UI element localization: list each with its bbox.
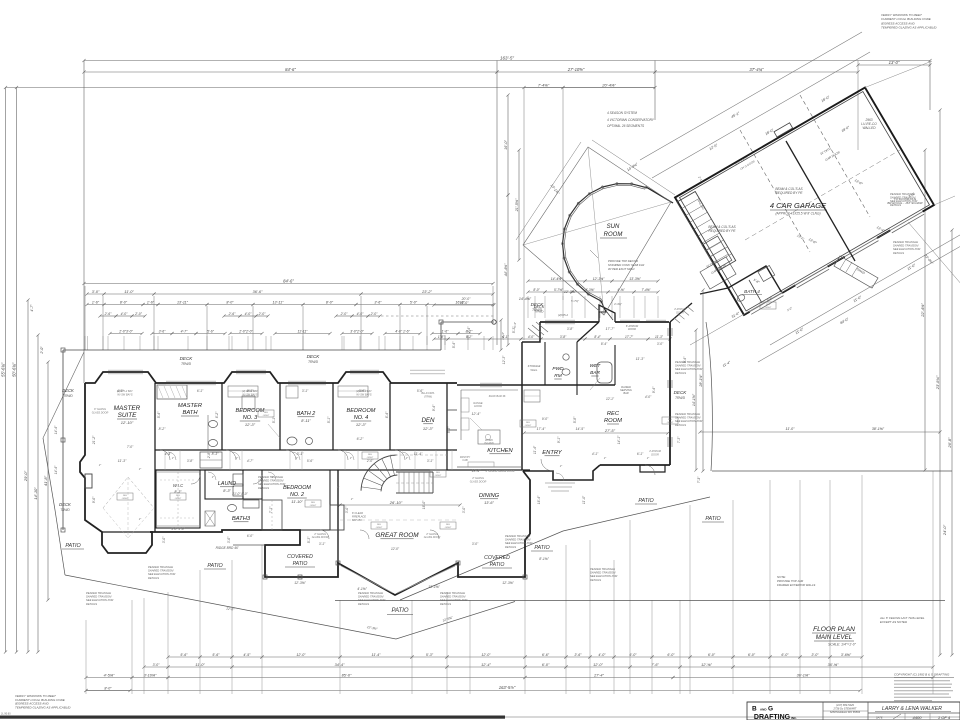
svg-text:3'-6": 3'-6" [159,329,167,333]
svg-text:DECK: DECK [307,354,321,359]
door arcs [160,450,170,460]
svg-text:5'-3": 5'-3" [447,426,451,433]
svg-text:LIGHT: LIGHT [525,425,532,427]
svg-text:8'-4": 8'-4" [594,335,601,339]
patio long horizontal y600 [335,600,945,602]
svg-text:PATIO: PATIO [638,498,654,504]
svg-text:28'-1⅝": 28'-1⅝" [699,374,703,388]
svg-text:14'-4⅝": 14'-4⅝" [519,297,532,301]
svg-text:PEAKED TRIANGLE: PEAKED TRIANGLE [893,240,918,244]
svg-text:3°: 3° [647,456,649,460]
svg-text:23'-8¾": 23'-8¾" [935,375,940,390]
svg-text:TRWD: TRWD [675,396,686,400]
bedroom3 furr box [242,396,255,409]
curved stair fan [381,475,397,491]
right dim columns [924,150,926,470]
svg-text:PATIO: PATIO [705,516,721,522]
svg-text:TRWD: TRWD [532,308,543,312]
svg-text:G: G [768,706,773,713]
dimension 84-6 top [84,71,497,73]
bedroom4 closet [338,386,368,397]
svg-text:SHARED TRANSOM: SHARED TRANSOM [890,196,916,200]
svg-text:14'-1⅝": 14'-1⅝" [692,393,696,406]
pwd rm / wet bar walls [522,384,615,386]
svg-text:SHARED TRANSOM: SHARED TRANSOM [440,595,466,599]
svg-text:3°: 3° [272,475,274,479]
window [667,328,669,336]
svg-text:TRWD: TRWD [308,360,319,364]
sunroom connector to garage [646,187,673,203]
svg-text:5'-7⅝": 5'-7⅝" [554,288,564,292]
svg-text:3'-10⅝": 3'-10⅝" [144,673,157,677]
house outer wall top with bays [85,372,457,383]
svg-text:14'-4": 14'-4" [54,425,58,434]
svg-text:WET: WET [590,363,602,369]
mud hall to garage [670,303,692,322]
svg-text:W/ PER EXHT SPAN: W/ PER EXHT SPAN [608,267,635,271]
master bath fixtures [157,385,187,399]
svg-text:9'-6": 9'-6" [92,496,96,503]
pwd fixtures [562,369,570,375]
bottom sheet edge bar [0,716,505,719]
garage dim lines NW side [640,32,862,160]
svg-text:EXCEPT AS NOTED: EXCEPT AS NOTED [880,620,907,624]
svg-text:NO. 2: NO. 2 [290,492,304,498]
svg-text:BATH 2: BATH 2 [297,411,315,417]
svg-text:13'-0": 13'-0" [889,60,900,65]
dim 38-1 [745,447,945,449]
property line left diagonal [43,438,65,575]
svg-text:PATIO: PATIO [65,543,81,549]
svg-text:27'-4": 27'-4" [593,673,604,677]
svg-text:12'-3": 12'-3" [423,426,434,431]
svg-text:21'-5⅝": 21'-5⅝" [515,198,519,212]
great room dashed ridge [340,519,458,521]
svg-text:13'-6": 13'-6" [484,501,494,505]
window ticks top wall [108,369,143,371]
svg-text:4400: 4400 [913,715,923,720]
svg-text:6'-0": 6'-0" [781,653,789,657]
svg-text:B: B [752,706,757,713]
svg-text:GLASS DOOR: GLASS DOOR [92,411,109,414]
svg-text:PEAKED TRIANGLE: PEAKED TRIANGLE [890,192,915,196]
svg-text:4'-0": 4'-0" [598,653,606,657]
great room fireplace [330,505,344,530]
garage man door bump [774,123,793,137]
dim drop lines long [84,286,86,350]
svg-text:LIGHT: LIGHT [263,415,270,417]
svg-text:LARRY & LENA WALKER: LARRY & LENA WALKER [882,706,942,712]
svg-text:3'-0": 3'-0" [162,536,166,543]
svg-text:3'-0": 3'-0" [462,506,466,513]
misc leader arrows [268,424,280,438]
svg-text:3'-1": 3'-1" [297,452,305,456]
svg-text:4'-0": 4'-0" [528,335,535,339]
svg-text:3'-8": 3'-8" [187,459,194,463]
svg-text:LIGHT: LIGHT [175,498,182,500]
svg-text:5'-6": 5'-6" [307,459,314,463]
svg-text:HOOD: HOOD [474,404,482,408]
svg-text:8'-3": 8'-3" [174,490,182,494]
svg-text:SHARED TRANSOM: SHARED TRANSOM [893,244,919,248]
svg-text:7'-0": 7'-0" [127,445,134,449]
svg-text:SEE ELEVATION FOR: SEE ELEVATION FOR [86,598,113,602]
svg-text:SHARED TRANSOM: SHARED TRANSOM [675,416,701,420]
svg-text:TEMPERED GLAZING AS APPLICABLE: TEMPERED GLAZING AS APPLICABLE) [881,26,936,30]
svg-text:MASTER: MASTER [114,405,141,412]
copyright note [894,677,954,679]
svg-text:4'-1⅝": 4'-1⅝" [357,587,367,591]
svg-text:SEE ELEVATION FOR: SEE ELEVATION FOR [358,598,385,602]
svg-text:COPYRIGHT (C) 1992 B & G DRAFT: COPYRIGHT (C) 1992 B & G DRAFTING [894,673,950,677]
svg-text:SHARED TRANSOM: SHARED TRANSOM [505,538,531,542]
master fireplace [85,474,92,488]
svg-text:11'-0": 11'-0" [786,427,796,431]
house left outer wall [80,383,152,553]
svg-text:4 SEASON SYSTEM: 4 SEASON SYSTEM [607,111,637,115]
garage diag dims right [908,222,960,292]
svg-text:MASTER: MASTER [178,403,203,409]
svg-text:GLASS DOOR: GLASS DOOR [470,480,487,483]
svg-text:FRAMED EXTERIOR WALLS: FRAMED EXTERIOR WALLS [777,583,815,587]
dim row 3 [87,304,104,306]
svg-text:DECK: DECK [674,390,688,395]
svg-text:3'-0": 3'-0" [153,663,161,667]
svg-text:MAIN LEVEL: MAIN LEVEL [816,634,853,641]
sun room center lines [588,147,604,315]
master suite east wall [154,383,156,532]
diamond edge dims [592,140,675,195]
svg-text:12'-0": 12'-0" [391,547,400,551]
kitchen east wall [521,342,523,470]
bath3 fixtures [228,505,237,512]
svg-text:4 CAR GARAGE: 4 CAR GARAGE [770,201,827,210]
svg-text:14'-10": 14'-10" [33,487,38,500]
laundry walls [205,470,243,499]
svg-text:27'-5": 27'-5" [604,428,616,433]
svg-text:W/ SM BAYS: W/ SM BAYS [117,392,132,396]
svg-text:2'-0": 2'-0" [370,312,379,316]
svg-text:PEAKED TRIANGLE: PEAKED TRIANGLE [675,412,700,416]
svg-text:12'-3⅝": 12'-3⅝" [294,581,306,585]
svg-text:SEE ELEVATION FOR: SEE ELEVATION FOR [505,541,532,545]
dim rows under sunroom [528,280,585,282]
svg-text:36'-6": 36'-6" [253,290,263,294]
svg-text:5'-7⅝": 5'-7⅝" [571,299,580,303]
svg-text:13'-11": 13'-11" [273,300,285,304]
svg-text:DETAILS: DETAILS [440,602,451,606]
svg-text:14'-1": 14'-1" [617,435,621,444]
svg-text:12'-⅝": 12'-⅝" [701,663,712,667]
svg-text:LIGHT: LIGHT [667,422,674,424]
svg-text:6'-0": 6'-0" [667,653,675,657]
svg-text:7'-1": 7'-1" [269,506,273,513]
svg-text:11'-0": 11'-0" [582,495,586,504]
svg-text:GREAT ROOM: GREAT ROOM [375,532,419,539]
svg-text:16'-0": 16'-0" [460,301,469,305]
svg-text:3'-1": 3'-1" [319,542,326,546]
svg-text:14'-5": 14'-5" [576,427,585,431]
svg-text:3°: 3° [212,475,214,479]
svg-text:BATH3: BATH3 [232,516,251,522]
svg-text:PEAKED TRIANGLE: PEAKED TRIANGLE [590,567,615,571]
laundry washer dryer [233,474,243,484]
svg-text:6'-4": 6'-4" [385,411,389,418]
trwd walk hatches [674,318,680,323]
svg-text:PEAKED TRIANGLE: PEAKED TRIANGLE [440,591,465,595]
svg-text:4'-3⅝": 4'-3⅝" [614,302,623,306]
svg-text:8'-0": 8'-0" [326,300,334,304]
garage trwd steps [834,256,878,288]
bottom drop lines [85,620,87,694]
svg-text:REQUIRED BY PE: REQUIRED BY PE [775,191,803,195]
svg-text:COVERED: COVERED [484,555,510,561]
svg-text:5'-0" 5'-0": 5'-0" 5'-0" [171,527,185,531]
svg-text:12'-3": 12'-3" [245,422,256,427]
bottom overall dim [86,690,130,692]
svg-text:DETAILS: DETAILS [148,576,159,580]
svg-text:BAR: BAR [590,370,600,376]
svg-text:3'-6": 3'-6" [374,300,382,304]
svg-text:DETAILS: DETAILS [890,203,901,207]
svg-text:4'-1": 4'-1" [592,452,599,456]
svg-text:PEAKED TRIANGLE: PEAKED TRIANGLE [675,360,700,364]
rec room east wall [669,322,671,465]
svg-text:36'-⅝": 36'-⅝" [828,663,839,667]
svg-text:6'-0": 6'-0" [708,653,716,657]
kitchen counters [460,390,462,440]
svg-text:8'-11": 8'-11" [301,419,311,423]
svg-text:3'-6": 3'-6" [227,536,231,543]
svg-text:16'-4": 16'-4" [537,495,541,504]
dim drop lines [84,336,86,350]
svg-text:3'-6⅝": 3'-6⅝" [841,653,852,657]
svg-text:14'-4⅝": 14'-4⅝" [551,277,563,281]
bedroom3 closet doors [228,386,258,397]
bath3 walls [222,499,262,530]
svg-text:DETAILS: DETAILS [358,602,369,606]
front door recess [599,305,615,322]
svg-text:3'-0": 3'-0" [472,542,479,546]
svg-text:2'-0": 2'-0" [258,312,267,316]
window [667,380,669,388]
svg-text:38'-1⅝": 38'-1⅝" [872,427,885,431]
bedroom4 / den wall [389,383,391,450]
svg-text:7'-3": 7'-3" [697,476,701,483]
svg-text:1'-6": 1'-6" [147,300,155,304]
svg-text:4" GLDNG GLASS DOOR: 4" GLDNG GLASS DOOR [485,470,514,473]
svg-text:2'-4": 2'-4" [467,326,471,334]
svg-text:12'-0": 12'-0" [481,653,491,657]
hall tiny arcs [168,452,176,460]
prow windows [341,566,393,593]
kitchen south counter [457,466,522,468]
stair rail dashed [396,482,433,484]
svg-text:LIGHT: LIGHT [376,527,383,529]
svg-text:163'-5⅞": 163'-5⅞" [499,685,516,690]
svg-text:11'-3": 11'-3" [118,459,127,463]
svg-text:8'-3": 8'-3" [212,452,220,456]
svg-text:DECK: DECK [62,388,74,393]
sunroom connector to entry [599,301,606,312]
svg-text:6'-1": 6'-1" [637,452,644,456]
den bay dashed [390,454,447,456]
svg-text:SNAK BAR 36: SNAK BAR 36 [489,394,506,398]
svg-text:8'-0": 8'-0" [533,288,540,292]
corridor wall y470 [155,469,530,471]
entry closet [524,390,540,402]
svg-text:4'-5⅝": 4'-5⅝" [104,673,115,677]
svg-text:36'-1⅝": 36'-1⅝" [797,673,810,677]
svg-text:3'-0": 3'-0" [345,506,349,513]
svg-text:3'-8": 3'-8" [560,335,567,339]
master bath / bedroom3 wall [221,383,223,450]
svg-text:JL.90.60: JL.90.60 [1,713,11,716]
left sheet verticals [5,88,7,653]
svg-text:ISLAND: ISLAND [484,441,493,445]
svg-text:LIGHT: LIGHT [445,527,452,529]
svg-text:REQUIRED BY PE: REQUIRED BY PE [708,229,736,233]
svg-text:ENTRY: ENTRY [542,450,563,456]
svg-text:NO. 3: NO. 3 [243,415,258,421]
deck west edge [62,350,64,530]
corridor wall y450 [155,449,457,451]
svg-text:DOOR: DOOR [651,453,659,456]
svg-text:(417) 883-5429: (417) 883-5429 [836,703,854,707]
stair straight run [396,471,433,473]
garage center long dashed [745,150,900,240]
svg-text:TRWD: TRWD [63,394,73,398]
rec room right dim col [695,330,697,470]
house bottom wall left section [150,530,300,577]
svg-text:11'-4": 11'-4" [533,445,537,454]
svg-text:4'-0": 4'-0" [117,389,124,393]
svg-text:4'-0": 4'-0" [121,312,129,316]
svg-text:SHARED TRANSOM: SHARED TRANSOM [258,479,284,483]
deck steps at kitchen [528,328,540,338]
svg-text:12'-0": 12'-0" [296,653,306,657]
svg-text:TEMPERED GLAZING AS APPLICABLE: TEMPERED GLAZING AS APPLICABLE) [15,705,70,709]
svg-text:DINING: DINING [479,493,500,499]
entry south wall zigzag [523,465,600,480]
svg-text:3°: 3° [172,456,174,460]
svg-text:2'-0": 2'-0" [340,312,349,316]
svg-text:11'-10": 11'-10" [291,500,303,504]
svg-text:DETAILS: DETAILS [86,602,97,606]
svg-text:3°: 3° [604,456,606,460]
svg-text:2'-6": 2'-6" [228,312,237,316]
sun room segmented semicircle [563,184,646,301]
svg-text:(2)W5-2: (2)W5-2 [558,313,569,317]
svg-text:44'-4⅝": 44'-4⅝" [504,263,508,276]
svg-text:6'-0": 6'-0" [542,663,550,667]
svg-text:22'-4⅝": 22'-4⅝" [920,303,925,318]
svg-text:4'-0": 4'-0" [645,395,652,399]
svg-text:PEAKED TRIANGLE: PEAKED TRIANGLE [358,591,383,595]
svg-text:11'-3": 11'-3" [655,335,664,339]
svg-text:4'-7": 4'-7" [247,459,254,463]
svg-text:3°: 3° [351,497,353,501]
svg-text:SCALE: 1/4"=1'-0": SCALE: 1/4"=1'-0" [828,643,856,647]
svg-text:NO. 4: NO. 4 [354,415,369,421]
svg-text:PATIO: PATIO [207,563,223,569]
rec room south wall [600,464,670,466]
bath3 bifold X [205,511,215,526]
svg-text:REC: REC [607,411,620,417]
svg-text:SHARED TRANSOM: SHARED TRANSOM [675,364,701,368]
deck step jog [440,322,442,350]
sun room diamond roof [523,147,671,315]
svg-text:5'-3": 5'-3" [512,326,516,333]
svg-text:5'-8": 5'-8" [573,416,577,423]
svg-text:16'-0": 16'-0" [422,500,426,509]
deck 16-0 dim [434,304,494,306]
svg-text:11'-4": 11'-4" [372,653,382,657]
svg-text:BAR: BAR [623,391,628,395]
svg-text:26'-8": 26'-8" [947,437,952,449]
svg-text:W.I.C: W.I.C [173,483,184,488]
svg-text:DECK: DECK [180,356,194,361]
svg-text:17'-7": 17'-7" [606,327,615,331]
entry north outer wall y322 [540,321,599,323]
garage bay divider dashed 2 [800,95,870,217]
svg-text:PATIO: PATIO [534,545,550,551]
vertical guide x858 x930 [857,61,859,151]
svg-text:6'-0": 6'-0" [247,534,254,538]
svg-text:5'-6": 5'-6" [180,653,188,657]
svg-text:1 OF 4: 1 OF 4 [938,715,951,720]
den closet strip [447,409,457,411]
svg-text:4'-7": 4'-7" [30,304,34,312]
svg-text:3°: 3° [139,467,141,471]
svg-text:RIDGE BRD 46': RIDGE BRD 46' [216,546,239,550]
window [667,437,669,447]
svg-text:17'-7": 17'-7" [625,335,634,339]
den east wall [446,383,448,470]
hall door ticks [164,450,166,470]
svg-text:12'-3": 12'-3" [501,331,505,340]
covered patio door arcs [320,530,329,539]
svg-text:PATIO: PATIO [391,608,408,614]
svg-text:DRAFTING: DRAFTING [754,714,791,720]
svg-text:ROOM: ROOM [604,232,623,238]
svg-text:9'-0": 9'-0" [542,417,549,421]
deck post [492,320,496,324]
svg-text:5'-1": 5'-1" [327,416,331,423]
svg-text:LIGHT: LIGHT [765,307,772,309]
front door leaf [603,307,613,320]
svg-text:PEAKED TRIANGLE: PEAKED TRIANGLE [86,591,111,595]
patio edge diagonal [400,497,710,600]
dining east wall [523,471,530,534]
svg-text:12'-3⅝": 12'-3⅝" [564,290,577,294]
svg-text:12'-3": 12'-3" [502,355,506,364]
svg-text:DATE: DATE [876,717,883,720]
svg-text:163'-5": 163'-5" [500,55,514,60]
master bay bottom chamfers [102,531,152,533]
svg-text:PEAKED TRIANGLE: PEAKED TRIANGLE [148,565,173,569]
great room west wall [337,470,339,563]
svg-text:DEN: DEN [421,417,435,424]
svg-text:W/ SM BAYS: W/ SM BAYS [356,392,371,396]
svg-text:8'-3": 8'-3" [223,489,231,493]
svg-text:SEE ELEVATION FOR: SEE ELEVATION FOR [675,419,702,423]
svg-text:12'-4": 12'-4" [472,412,481,416]
svg-text:7'-4⅝": 7'-4⅝" [641,288,651,292]
svg-text:5'-3": 5'-3" [307,536,311,543]
svg-text:6'-0": 6'-0" [748,653,756,657]
svg-text:21'-0" 8'-0": 21'-0" 8'-0" [231,492,248,496]
